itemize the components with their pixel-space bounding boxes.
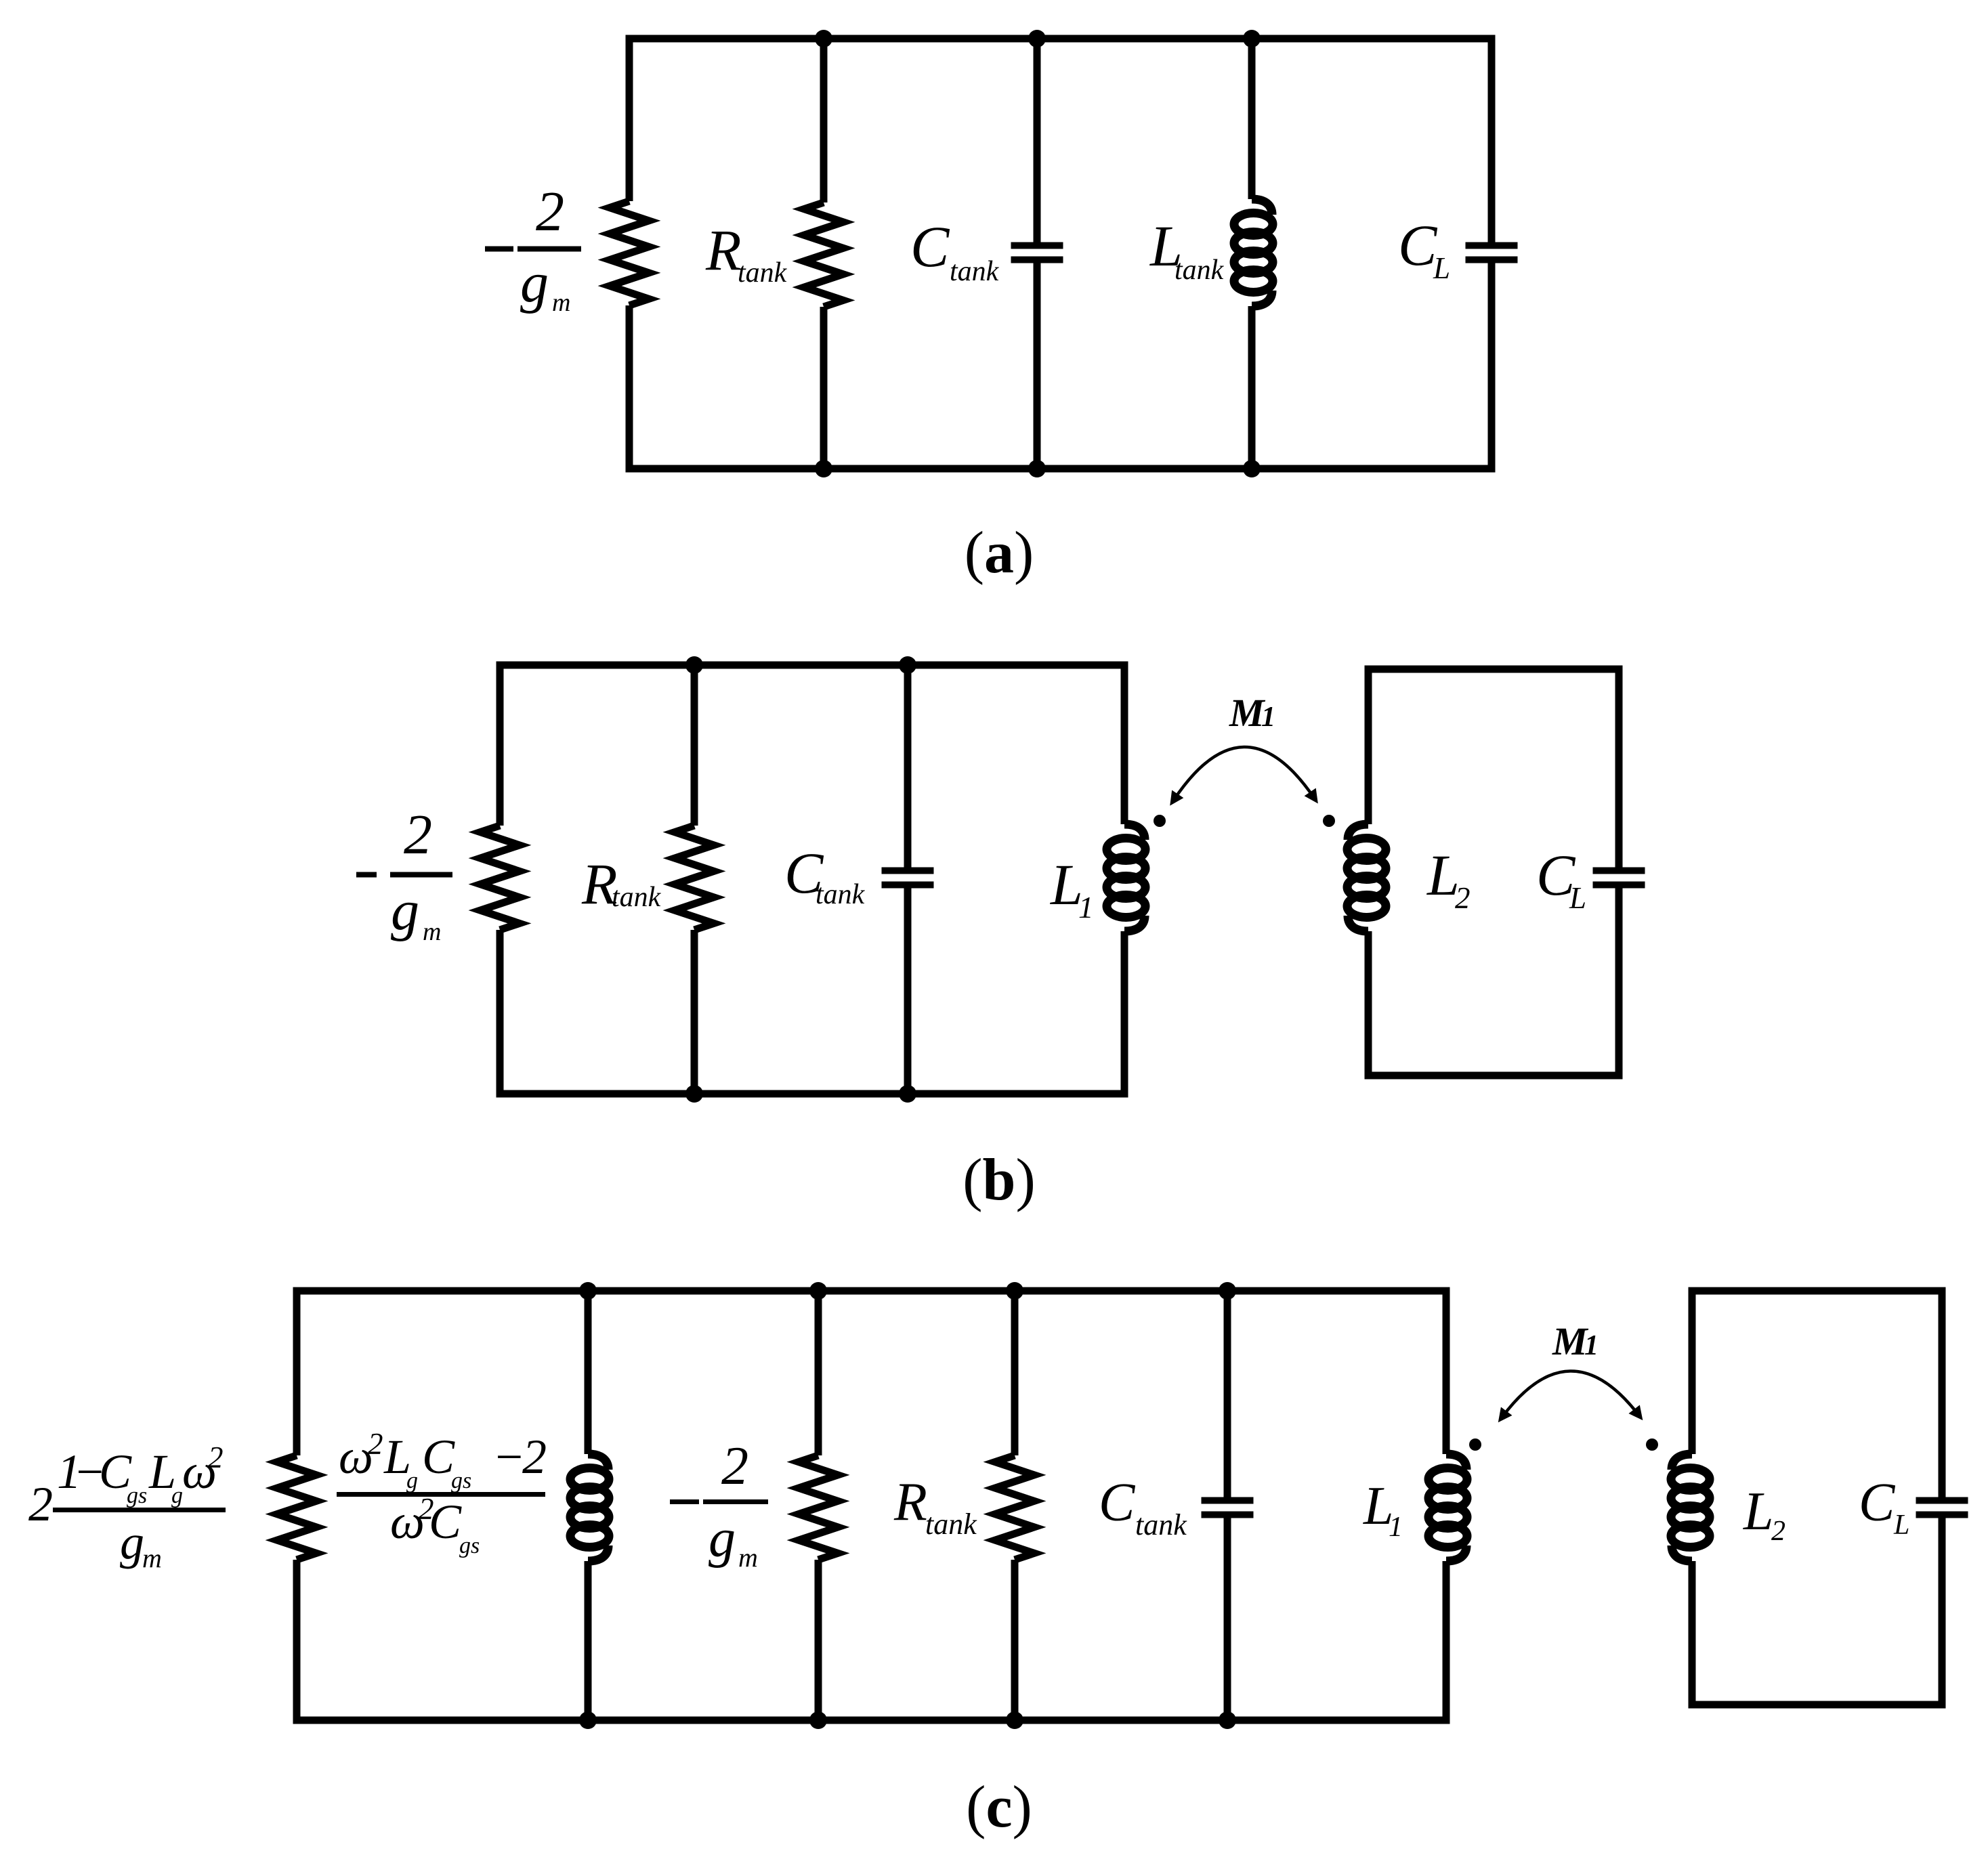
label -2/g_m denominator (c) — [709, 1509, 758, 1573]
svg-text:gs: gs — [459, 1533, 480, 1558]
label L1 (b) — [1049, 852, 1094, 924]
svg-text:tank: tank — [1135, 1508, 1187, 1541]
wire top loop1 (b) — [496, 662, 1128, 669]
wire left-top (b) — [496, 665, 504, 826]
wire C_tank branch top (c) — [1224, 1291, 1231, 1501]
label minus sign (a) — [485, 247, 513, 252]
wire right-top loop2 (c) — [1939, 1291, 1946, 1501]
wire L_tank branch top (a) — [1248, 39, 1256, 199]
wire C_tank branch bottom (a) — [1034, 260, 1041, 469]
svg-text:−: − — [492, 1430, 526, 1484]
label C_tank (b) — [784, 840, 866, 910]
svg-text:g: g — [520, 251, 549, 314]
svg-text:C: C — [1859, 1473, 1896, 1533]
coupling dot L2 (c) — [1646, 1438, 1658, 1451]
wire R_tank branch bottom (a) — [820, 307, 828, 469]
wire right-top loop2 (b) — [1615, 669, 1623, 871]
wire top loop2 (b) — [1365, 666, 1623, 673]
junction bottom C_tank (c) — [1219, 1711, 1236, 1729]
wire right-top loop1 (b) — [1121, 665, 1128, 824]
svg-text:m: m — [423, 918, 441, 946]
wire R_tank branch bottom (b) — [691, 930, 698, 1094]
svg-text:g: g — [391, 879, 419, 942]
svg-text:m: m — [552, 289, 570, 317]
wire bottom loop1 (b) — [496, 1090, 1128, 1098]
resistor -2/g_m (c) — [799, 1455, 838, 1560]
wire left-top loop2 (b) — [1365, 669, 1372, 824]
junction bottom L_tank (a) — [1243, 460, 1261, 477]
svg-text:C: C — [422, 1430, 455, 1484]
svg-text:g: g — [709, 1509, 736, 1569]
caption (b) — [963, 1147, 1036, 1213]
label left numerator 1-CgsLgw2 (c) — [57, 1441, 224, 1508]
svg-text:1: 1 — [1389, 1512, 1403, 1543]
inductor (w2LgCgs-2)/(w2Cgs) (c) — [570, 1454, 609, 1561]
junction bottom R_tank (c) — [1006, 1711, 1023, 1729]
label g_m denominator (b) — [391, 879, 441, 946]
junction top C_tank (b) — [899, 656, 916, 674]
svg-text:L: L — [1569, 881, 1586, 915]
svg-text:L: L — [1743, 1482, 1774, 1541]
svg-text:2: 2 — [721, 1436, 748, 1496]
resistor -2/g_m (a) — [610, 201, 649, 305]
svg-text:tank: tank — [612, 882, 662, 913]
svg-text:(c): (c) — [966, 1774, 1032, 1840]
svg-text:2: 2 — [404, 803, 432, 866]
resistor R_tank (a) — [804, 202, 843, 307]
svg-text:1: 1 — [1584, 1330, 1599, 1361]
label left factor 2 (c) — [28, 1477, 53, 1531]
wire top loop1 (c) — [293, 1287, 1450, 1295]
inductor L1 (b) — [1107, 824, 1145, 931]
wire bottom loop2 (b) — [1365, 1072, 1623, 1080]
junction top L_tank (a) — [1243, 30, 1261, 47]
svg-text:(b): (b) — [963, 1147, 1036, 1213]
junction bottom R_tank (b) — [685, 1085, 703, 1103]
svg-text:(a): (a) — [965, 520, 1034, 586]
wire top (a) — [626, 35, 1496, 43]
caption (a) — [965, 520, 1034, 586]
wire left-bottom (c) — [293, 1560, 301, 1720]
svg-text:R: R — [893, 1472, 927, 1532]
label left denominator g_m (c) — [120, 1515, 162, 1573]
wire top loop2 (c) — [1689, 1287, 1946, 1295]
svg-text:2: 2 — [368, 1427, 383, 1461]
label fraction bar (a) — [517, 247, 581, 252]
label C_L (b) — [1536, 843, 1586, 915]
svg-text:2: 2 — [28, 1477, 53, 1531]
svg-text:2: 2 — [1771, 1516, 1785, 1547]
label M1 (c) — [1552, 1319, 1599, 1363]
wire -2/gm branch bottom (c) — [815, 1560, 822, 1720]
svg-text:m: m — [142, 1543, 162, 1573]
wire left-top (c) — [293, 1291, 301, 1455]
wire right-bottom (a) — [1488, 260, 1496, 469]
wire right-top loop1 (c) — [1443, 1291, 1450, 1454]
label minus sign (b) — [356, 872, 377, 878]
svg-text:C: C — [1398, 213, 1438, 278]
wire bottom loop1 (c) — [293, 1717, 1450, 1724]
wire right-bottom loop1 (b) — [1121, 931, 1128, 1094]
wire R_tank branch top (c) — [1011, 1291, 1019, 1455]
svg-text:tank: tank — [1175, 255, 1225, 286]
svg-text:tank: tank — [950, 256, 1000, 287]
wire left-bottom (a) — [626, 305, 633, 469]
capacitor C_tank (c) — [1202, 1501, 1254, 1515]
label R_tank (a) — [705, 217, 788, 289]
label ind denominator w2Cgs (c) — [390, 1492, 480, 1558]
junction top -2/gm branch (c) — [809, 1282, 827, 1300]
svg-text:M: M — [1552, 1319, 1589, 1363]
capacitor C_tank (b) — [882, 871, 934, 885]
resistor R_tank (c) — [995, 1455, 1034, 1560]
wire right-bottom loop2 (c) — [1939, 1515, 1946, 1705]
label L2 (c) — [1743, 1482, 1785, 1547]
svg-text:tank: tank — [738, 257, 788, 289]
label L_tank (a) — [1149, 213, 1225, 286]
junction top Lg branch (c) — [579, 1282, 597, 1300]
wire L_tank branch bottom (a) — [1248, 306, 1256, 469]
junction bottom Lg branch (c) — [579, 1711, 597, 1729]
svg-text:L: L — [1893, 1510, 1909, 1541]
wire C_tank branch top (a) — [1034, 39, 1041, 246]
inductor L2 (b) — [1347, 824, 1386, 931]
svg-text:C: C — [429, 1495, 462, 1549]
wire R_tank branch bottom (c) — [1011, 1560, 1019, 1720]
junction bottom C_tank (b) — [899, 1085, 916, 1103]
junction bottom -2/gm branch (c) — [809, 1711, 827, 1729]
caption (c) — [966, 1774, 1032, 1840]
capacitor C_L (c) — [1916, 1501, 1968, 1515]
svg-text:2: 2 — [522, 1430, 547, 1484]
junction top C_tank (a) — [1028, 30, 1046, 47]
resistor -2/g_m (b) — [480, 826, 520, 930]
svg-text:g: g — [406, 1468, 418, 1493]
wire bottom loop2 (c) — [1689, 1701, 1946, 1709]
label left fraction bar (c) — [53, 1508, 226, 1512]
svg-text:R: R — [705, 217, 742, 282]
label L2 (b) — [1426, 843, 1471, 915]
label M1 (b) — [1229, 691, 1275, 735]
svg-text:C: C — [910, 214, 950, 279]
wire -2/gm branch top (c) — [815, 1291, 822, 1455]
svg-text:gs: gs — [451, 1468, 471, 1493]
svg-text:tank: tank — [925, 1508, 977, 1541]
svg-text:tank: tank — [816, 879, 866, 910]
mutual coupling arrow M1 (b) — [1174, 747, 1314, 800]
wire left-bottom loop2 (b) — [1365, 931, 1372, 1075]
label -2/g_m fraction bar (c) — [703, 1499, 768, 1504]
label fraction bar (b) — [390, 872, 452, 878]
label g_m denominator (a) — [520, 251, 570, 317]
capacitor C_L (b) — [1593, 871, 1645, 885]
mutual coupling arrow M1 (c) — [1502, 1371, 1638, 1417]
wire R_tank branch top (a) — [820, 39, 828, 202]
junction bottom C_tank (a) — [1028, 460, 1046, 477]
junction top R_tank (a) — [815, 30, 832, 47]
wire C_tank branch bottom (c) — [1224, 1515, 1231, 1721]
capacitor C_L (a) — [1466, 246, 1518, 260]
wire right-bottom loop1 (c) — [1443, 1561, 1450, 1720]
wire left-bottom loop2 (c) — [1689, 1561, 1696, 1705]
coupling dot L1 (c) — [1469, 1438, 1481, 1451]
svg-text:gs: gs — [127, 1483, 147, 1508]
junction top C_tank (c) — [1219, 1282, 1236, 1300]
svg-text:M: M — [1229, 691, 1266, 735]
junction top R_tank (c) — [1006, 1282, 1023, 1300]
label C_L (a) — [1398, 213, 1450, 285]
wire Lg branch top (c) — [585, 1291, 592, 1454]
svg-text:1: 1 — [1078, 891, 1094, 924]
label L1 (c) — [1363, 1476, 1403, 1543]
label R_tank (c) — [893, 1472, 977, 1541]
wire left-bottom (b) — [496, 930, 504, 1094]
svg-text:g: g — [171, 1483, 183, 1508]
wire left-top (a) — [626, 39, 633, 201]
label C_tank (c) — [1099, 1473, 1187, 1541]
svg-text:2: 2 — [1455, 881, 1471, 915]
resistor R_tank (b) — [675, 826, 714, 930]
svg-text:2: 2 — [536, 180, 564, 243]
label -2/g_m numerator (c) — [721, 1436, 748, 1496]
inductor L_tank (a) — [1234, 199, 1273, 306]
wire Lg branch bottom (c) — [585, 1561, 592, 1720]
junction bottom R_tank (a) — [815, 460, 832, 477]
coupling dot L2 (b) — [1323, 815, 1335, 827]
wire R_tank branch top (b) — [691, 665, 698, 826]
wire C_tank branch bottom (b) — [904, 885, 912, 1094]
svg-text:1: 1 — [1261, 702, 1275, 733]
coupling dot L1 (b) — [1154, 815, 1166, 827]
label -2/g_m (a) — [536, 180, 564, 243]
label R_tank (b) — [581, 851, 662, 916]
wire C_tank branch top (b) — [904, 665, 912, 871]
svg-text:L: L — [1433, 251, 1450, 285]
inductor L1 (c) — [1429, 1454, 1467, 1561]
capacitor C_tank (a) — [1011, 246, 1063, 260]
label C_tank (a) — [910, 214, 1000, 287]
label C_L (c) — [1859, 1473, 1909, 1541]
resistor 2(1-CgsLgw2)/gm (c) — [277, 1455, 316, 1560]
label -2/g_m minus sign (c) — [670, 1499, 699, 1504]
wire left-top loop2 (c) — [1689, 1291, 1696, 1454]
wire bottom (a) — [626, 465, 1496, 473]
svg-text:C: C — [1099, 1473, 1136, 1533]
wire right-bottom loop2 (b) — [1615, 885, 1623, 1076]
svg-text:2: 2 — [208, 1441, 224, 1474]
wire right-top (a) — [1488, 39, 1496, 246]
junction top R_tank (b) — [685, 656, 703, 674]
svg-text:g: g — [120, 1515, 144, 1569]
label -2/g_m (b) — [404, 803, 432, 866]
label ind fraction bar (c) — [337, 1492, 545, 1497]
inductor L2 (c) — [1671, 1454, 1710, 1561]
svg-text:m: m — [738, 1542, 758, 1573]
label ind numerator w2LgCgs-2 (c) — [339, 1427, 547, 1493]
